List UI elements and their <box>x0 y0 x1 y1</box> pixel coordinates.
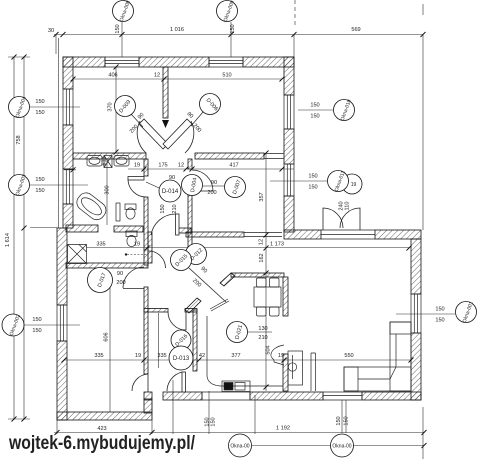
svg-text:150: 150 <box>35 188 44 194</box>
svg-text:Okna-00: Okna-00 <box>332 444 351 450</box>
wall kitchen north hatched part <box>186 232 244 237</box>
dashed axis line top <box>294 0 296 27</box>
svg-text:150: 150 <box>32 328 41 334</box>
leader window Okna-011 <box>270 180 327 182</box>
wall stub right of hall door <box>177 228 191 233</box>
svg-text:150: 150 <box>35 99 44 105</box>
svg-text:150: 150 <box>211 417 217 426</box>
svg-text:1 614: 1 614 <box>5 233 11 247</box>
wall exterior right segment A <box>411 239 421 294</box>
door hall south leaf <box>176 214 180 235</box>
window Okna-011 right wall of top block <box>284 164 294 196</box>
dim chain y360 interior <box>64 359 411 361</box>
wall hall left vertical segment B <box>144 197 148 265</box>
dim ext bottom x209 <box>208 391 210 434</box>
dim vline x266 interior <box>265 153 267 391</box>
wall dining north <box>231 273 284 277</box>
wall wc east thickening <box>148 232 152 263</box>
door arc left of V <box>137 121 146 153</box>
window Okna-004 left wall <box>63 89 73 125</box>
terrace door opening bottom <box>323 392 362 400</box>
leader D-009 <box>131 114 143 127</box>
terrace door leaves <box>311 353 316 391</box>
rotated dim texts <box>5 24 351 426</box>
door to lower-left room leaf <box>147 374 149 392</box>
circle D-013 <box>169 346 193 370</box>
window Okna-001 right exterior wall <box>411 294 421 333</box>
svg-text:335: 335 <box>94 353 103 359</box>
dim ext bottom x255 <box>254 395 256 434</box>
circle Okna-005 bottom <box>229 434 252 457</box>
leader D-021 <box>248 331 272 333</box>
dim vline room1 interior <box>115 67 117 152</box>
svg-text:150: 150 <box>230 24 236 33</box>
chair 1 <box>257 278 267 287</box>
wall fireplace pillar <box>283 354 288 391</box>
circle Okna-006 bottom <box>331 434 354 457</box>
wall hall left vertical segment C <box>144 287 148 374</box>
kitchen counter corner diagonal <box>210 299 229 311</box>
svg-text:377: 377 <box>231 353 240 359</box>
svg-text:150: 150 <box>310 114 319 120</box>
svg-text:150: 150 <box>35 177 44 183</box>
door D-017 wc arc <box>123 267 144 288</box>
window Okna-008 top wall <box>105 57 139 67</box>
french door north leaf right <box>340 208 360 230</box>
dot at dotted line <box>125 253 127 255</box>
window Okna-009 top wall <box>209 57 243 67</box>
wall interior horizontal y153 right of V door <box>195 153 264 159</box>
svg-text:606: 606 <box>104 332 110 341</box>
pass-through y153 wall right end <box>264 154 284 159</box>
dim ext bottom x342 <box>341 400 343 433</box>
svg-text:300: 300 <box>105 185 111 194</box>
svg-text:510: 510 <box>222 73 231 79</box>
wall north of right room segment A <box>284 230 321 239</box>
svg-text:12: 12 <box>178 163 184 169</box>
circle Okna-008 <box>113 1 134 22</box>
dim connector bottom-left <box>8 418 30 420</box>
leader D-006 <box>191 112 203 126</box>
svg-text:110: 110 <box>345 202 351 211</box>
svg-text:90: 90 <box>117 271 123 277</box>
wall diagonal stub upper near D-015 <box>185 273 235 313</box>
svg-text:19: 19 <box>351 182 357 188</box>
dim ext bottom x152 <box>151 400 153 434</box>
door opening north of right room <box>321 230 375 239</box>
door D-014 bathroom arc <box>128 180 146 197</box>
door D-021 arc <box>168 312 186 330</box>
door D-013 leaf <box>182 372 186 392</box>
svg-text:30: 30 <box>48 28 54 34</box>
dim ext bottom-right vertical <box>422 407 424 459</box>
svg-text:335: 335 <box>96 242 105 248</box>
toilet in bathroom <box>125 204 136 210</box>
bathtub <box>74 190 110 223</box>
circle Okna-003 <box>9 175 30 196</box>
window Okna-003 left wall <box>63 169 73 204</box>
washbasin 1 <box>87 156 102 167</box>
kitchen stove box <box>222 381 250 392</box>
circle D-014 <box>159 180 181 202</box>
circle D-012 <box>186 244 207 265</box>
leader window Okna-003 <box>30 184 88 186</box>
dim chain left inner <box>23 57 25 419</box>
wall bathroom bottom segment B <box>114 226 143 232</box>
leader D-014 <box>146 182 159 188</box>
wall north of right room segment B <box>375 230 421 239</box>
door arc right of V <box>185 121 194 153</box>
svg-text:1 192: 1 192 <box>276 426 290 432</box>
svg-text:150: 150 <box>435 307 444 313</box>
wall exterior left-lower segment B <box>57 341 67 420</box>
counter curvy edge <box>271 345 284 365</box>
circle D-004 <box>182 175 203 196</box>
circle D-017 <box>88 268 113 293</box>
dim chain bottom outer <box>54 432 424 434</box>
leader window Okna-001 <box>396 313 455 315</box>
svg-text:162: 162 <box>259 253 265 262</box>
svg-text:210: 210 <box>258 335 267 341</box>
chair 3 <box>257 307 267 316</box>
french door north leaf left <box>323 208 343 230</box>
dim ext line top-right corner <box>293 35 295 57</box>
cabinet between sinks <box>104 156 112 168</box>
dim ext line x58 along left wall <box>58 38 60 228</box>
svg-text:wojtek-6.mybudujemy.pl/: wojtek-6.mybudujemy.pl/ <box>8 432 195 454</box>
svg-text:1 173: 1 173 <box>270 242 284 248</box>
svg-text:150: 150 <box>308 185 317 191</box>
circle D-015 <box>171 250 192 271</box>
dim ext line window B to circle <box>230 22 232 57</box>
svg-text:1 016: 1 016 <box>170 27 184 33</box>
wall exterior right of top block segment A <box>284 57 294 95</box>
wall exterior left-upper segment B <box>63 125 73 169</box>
DOORS <box>123 119 360 392</box>
svg-text:19: 19 <box>135 353 141 359</box>
window kitchen bottom niche <box>202 392 250 400</box>
circle Okna-001 <box>456 302 477 323</box>
svg-text:357: 357 <box>259 192 265 201</box>
dim connector left step <box>30 227 57 229</box>
dim ext line window A to circle <box>121 22 123 57</box>
dim vline pantry <box>158 313 160 368</box>
svg-text:335: 335 <box>157 353 166 359</box>
WINDOWS <box>57 57 421 400</box>
window Okna-002 left wall lower <box>57 305 67 341</box>
wall hall left vertical segment A <box>144 159 148 176</box>
door D-013 arc <box>167 372 182 391</box>
svg-text:150: 150 <box>32 317 41 323</box>
svg-text:200: 200 <box>116 280 125 286</box>
wall diagonal stub lower near D-015 <box>185 298 201 313</box>
svg-text:550: 550 <box>344 353 353 359</box>
wall interior horizontal y153 bathroom top <box>73 153 146 159</box>
dim ext bottom x57 <box>56 420 58 434</box>
kitchen counter edge <box>207 316 283 386</box>
svg-text:619: 619 <box>102 156 108 165</box>
door D-006 right leaf of V double door <box>163 119 192 149</box>
svg-text:150: 150 <box>308 174 317 180</box>
wall exterior bottom of lower-left room <box>57 412 152 420</box>
svg-text:Okna-00: Okna-00 <box>230 444 249 450</box>
svg-text:175: 175 <box>158 163 167 169</box>
svg-text:210: 210 <box>172 204 178 213</box>
wall exterior right segment B <box>411 333 421 400</box>
svg-text:42: 42 <box>199 353 205 359</box>
wall exterior left-upper segment A <box>63 57 73 89</box>
wall exterior left-lower segment A <box>57 228 67 305</box>
wall hall south right stub <box>185 309 197 313</box>
svg-text:150: 150 <box>310 103 319 109</box>
radiator bathroom <box>116 203 120 221</box>
wall exterior top segment A <box>63 57 105 67</box>
door to lower-left room arc <box>132 374 148 391</box>
sofa inner lines <box>358 334 396 379</box>
wall hall right vertical <box>188 159 192 169</box>
wall exterior top segment C <box>243 57 294 67</box>
leader D-007 <box>203 185 224 187</box>
corner shower <box>68 245 87 264</box>
circle Okna-002 <box>2 314 24 336</box>
circle Okna-010 <box>334 100 355 121</box>
svg-text:150: 150 <box>160 204 166 213</box>
door hall south arc <box>151 214 176 235</box>
dim vline bathroom <box>106 159 108 225</box>
leader window Okna-002 <box>24 324 80 326</box>
door D-014 bathroom leaf <box>128 177 144 181</box>
circle D-006 <box>200 94 221 115</box>
svg-text:19: 19 <box>278 353 284 359</box>
svg-text:370: 370 <box>108 102 114 111</box>
door D-009 left leaf of V double door <box>139 119 168 149</box>
wall hall south horizontal <box>144 309 168 313</box>
circle D-021 <box>227 322 248 343</box>
toilet in wc <box>126 231 137 237</box>
wall exterior bottom segment D <box>362 392 421 400</box>
svg-text:12: 12 <box>154 73 160 79</box>
wall dining east <box>283 277 288 316</box>
svg-text:569: 569 <box>351 27 360 33</box>
washbasin 2 <box>114 156 129 167</box>
circle pair Okna-011 <box>342 174 362 194</box>
svg-text:504: 504 <box>266 345 272 354</box>
dim line middle interior <box>64 168 294 171</box>
door D-004 arc to kitchen <box>192 170 213 191</box>
dim ext bottom x173 <box>172 380 174 434</box>
dim line rooms top interior <box>73 78 282 80</box>
svg-text:406: 406 <box>108 73 117 79</box>
DIMENSION TEXTS <box>32 27 444 432</box>
circle Okna-004 <box>9 97 30 118</box>
dim ext line right edge <box>422 35 424 230</box>
dim chain left outer <box>13 57 15 419</box>
wall wc bottom <box>66 263 148 268</box>
svg-text:200: 200 <box>207 190 216 196</box>
dim ext line top-left <box>55 35 57 55</box>
dim connector top-left <box>8 56 30 58</box>
chair 4 <box>270 307 280 316</box>
wall right edge of lower-left room <box>144 399 152 413</box>
dim vline lower-left room <box>109 272 111 412</box>
svg-text:150: 150 <box>435 318 444 324</box>
chair 2 <box>270 278 280 287</box>
svg-text:150: 150 <box>35 110 44 116</box>
svg-text:19: 19 <box>134 242 140 248</box>
wall exterior right of top block segment B <box>284 129 294 164</box>
svg-text:758: 758 <box>16 135 22 144</box>
leader window Okna-010 <box>298 109 333 111</box>
partition arrowhead <box>162 120 169 128</box>
dim slashes <box>12 32 427 448</box>
svg-text:130: 130 <box>258 326 267 332</box>
svg-text:417: 417 <box>229 163 238 169</box>
wall exterior top segment B <box>139 57 209 67</box>
tick top-right corner <box>422 4 424 15</box>
dining table <box>254 287 281 307</box>
sofa horizontal part <box>344 367 411 391</box>
wall exterior bottom segment B <box>163 392 202 400</box>
window Okna-010 right wall of top block <box>284 95 294 129</box>
svg-text:12: 12 <box>259 239 265 245</box>
WALLS <box>57 57 421 420</box>
dim chain bottom second <box>252 445 424 447</box>
leader window Okna-004 <box>30 106 80 108</box>
FIXTURES <box>68 156 412 392</box>
wall kitchen west vertical <box>193 310 197 371</box>
door D-017 wc leaf <box>123 288 144 290</box>
wall exterior bottom segment C <box>250 392 323 400</box>
dotted fixture line in wc <box>127 254 148 256</box>
wall hall right vertical lower <box>188 190 192 248</box>
door arc hall west upper <box>149 251 166 268</box>
sofa vertical part <box>390 322 411 391</box>
wall bathroom bottom segment A <box>66 225 98 232</box>
door D-015 diagonal leaf <box>189 268 226 302</box>
wall partition between top bedrooms <box>163 67 168 118</box>
circle Okna-009 <box>217 1 238 22</box>
svg-text:150: 150 <box>344 416 350 425</box>
circle D-009 <box>115 96 136 117</box>
svg-text:90: 90 <box>211 180 217 186</box>
circle D-007 <box>225 177 246 198</box>
svg-text:D-013: D-013 <box>173 356 190 362</box>
wall exterior bottom segment A <box>144 392 152 400</box>
wall exterior right of top block segment C <box>284 196 294 232</box>
svg-text:150: 150 <box>336 416 342 425</box>
circle D-016 <box>171 330 191 350</box>
dim ext bottom x346 <box>345 400 347 433</box>
svg-text:19: 19 <box>134 163 140 169</box>
wall exterior left-upper segment C <box>63 204 73 228</box>
wood stove <box>288 351 303 385</box>
dim line y248 interior <box>86 247 409 249</box>
svg-text:150: 150 <box>115 24 121 33</box>
svg-text:D-014: D-014 <box>162 189 179 195</box>
dim chain top <box>54 34 423 36</box>
pass-through kitchen north wall <box>244 233 282 237</box>
